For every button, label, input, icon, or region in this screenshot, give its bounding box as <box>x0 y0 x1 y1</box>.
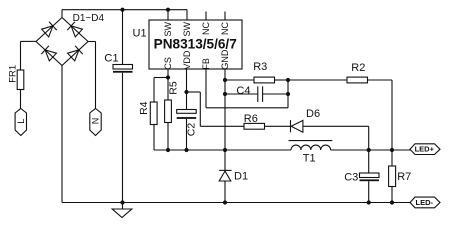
terminal N <box>90 109 101 136</box>
svg-text:SW: SW <box>163 21 173 36</box>
wire CS node to R4 <box>154 77 168 79</box>
junction GND / R3 <box>223 78 227 82</box>
resistor R7 <box>389 166 396 187</box>
wire C3 bottom <box>368 181 370 202</box>
svg-text:C4: C4 <box>236 85 250 97</box>
wire C4 left <box>225 93 258 95</box>
diode bridge D1~D4 diamond wires <box>36 18 88 66</box>
junction C3 top <box>367 148 371 152</box>
wire switch node to T1 <box>225 149 291 151</box>
svg-text:R2: R2 <box>351 62 365 74</box>
wire switch node to D1 <box>224 150 226 170</box>
wire R7 bottom <box>391 187 393 203</box>
svg-text:LED-: LED- <box>416 198 434 207</box>
fuse resistor FR1 <box>17 70 24 90</box>
wire CS node to R5 <box>167 78 169 101</box>
junction C4 / feedback node <box>286 92 290 96</box>
junction R7 top / R2 <box>390 148 394 152</box>
wire VDD node jog to R6 <box>187 91 201 93</box>
terminal L <box>15 109 26 136</box>
junction C2 / switch-node row <box>184 148 188 152</box>
svg-text:VDD: VDD <box>182 50 192 70</box>
junction R7 bottom <box>390 200 394 204</box>
junction bottom rail / C1 / ground <box>120 200 124 204</box>
junction GND / C4 <box>223 92 227 96</box>
wire C3 top <box>368 150 370 173</box>
wire R4 to switch-node row <box>153 125 155 151</box>
inductor T1 <box>289 140 333 142</box>
wire FB pin down <box>205 69 207 108</box>
wire top rail to C1 <box>122 10 124 65</box>
svg-text:FR1: FR1 <box>8 65 19 83</box>
svg-text:SW: SW <box>182 21 192 36</box>
wire bridge top vertex stub <box>61 10 63 18</box>
bridge diode top-right <box>71 26 82 37</box>
resistor R4 <box>150 102 157 125</box>
wire SW pin 2 stub <box>186 10 188 20</box>
capacitor C3 <box>360 173 380 178</box>
svg-text:NC: NC <box>201 22 211 35</box>
svg-text:D1: D1 <box>234 171 248 183</box>
wire bridge bottom vertex down <box>61 66 63 203</box>
wire R2 to output node <box>368 79 393 81</box>
junction feedback node / R2 row <box>286 78 290 82</box>
wire FB to feedback node <box>206 107 288 109</box>
svg-text:N: N <box>90 118 100 125</box>
svg-text:D6: D6 <box>306 108 320 120</box>
svg-text:R4: R4 <box>138 101 150 115</box>
wire switch-node row R4 to junction <box>154 149 225 151</box>
diode D6 <box>290 120 292 132</box>
junction VDD node <box>184 90 188 94</box>
wire R3 to feedback node <box>275 79 289 81</box>
wire N branch down <box>95 42 97 109</box>
bridge diode bottom-left <box>45 50 56 61</box>
junction R5 / switch-node row <box>166 148 170 152</box>
op-amp U1 PN8313 body <box>149 20 242 69</box>
capacitor C2 <box>177 110 197 114</box>
ground <box>122 203 124 210</box>
svg-text:PN8313/5/6/7: PN8313/5/6/7 <box>154 36 237 51</box>
wire bridge right vertex jog <box>88 41 96 43</box>
wire R3 row <box>225 79 254 81</box>
capacitor C4 <box>257 86 259 102</box>
wire SW pin 1 stub <box>167 10 169 20</box>
wire NC pin 4 stub <box>224 12 226 21</box>
wire L branch down to FR1 <box>20 41 22 70</box>
wire C2 to switch-node row <box>186 119 188 150</box>
svg-text:GND: GND <box>220 49 230 70</box>
svg-text:R6: R6 <box>244 113 258 125</box>
svg-text:T1: T1 <box>303 153 316 165</box>
svg-text:D1~D4: D1~D4 <box>73 13 105 24</box>
wire R7 top <box>391 150 393 166</box>
junction bottom rail / D1 <box>223 200 227 204</box>
wire FR1 to L terminal <box>20 90 22 109</box>
resistor R3 <box>254 77 275 83</box>
terminal LED- <box>410 197 440 208</box>
svg-text:R7: R7 <box>397 171 411 183</box>
terminal LED+ <box>410 144 440 155</box>
svg-text:C1: C1 <box>104 53 118 65</box>
svg-text:R5: R5 <box>168 81 180 95</box>
junction switch node <box>223 148 227 152</box>
svg-text:R3: R3 <box>253 61 267 73</box>
junction CS node <box>166 75 170 79</box>
wire T1 to LED+ terminal <box>331 149 411 151</box>
junction top rail / SW pin 1 <box>166 8 170 12</box>
wire feedback node to R2 <box>288 79 347 81</box>
resistor R2 <box>347 77 368 83</box>
wire bottom rail <box>62 202 411 204</box>
svg-text:C3: C3 <box>344 171 358 183</box>
wire VDD pin stub <box>186 69 188 92</box>
diode D1 <box>219 169 231 171</box>
junction top rail / C1 <box>120 8 124 12</box>
svg-text:FB: FB <box>201 58 211 70</box>
wire NC pin 3 stub <box>205 12 207 21</box>
wire CS pin stub <box>167 69 169 78</box>
resistor R6 <box>244 123 265 129</box>
wire C4 right <box>263 93 288 95</box>
wire bridge left vertex to L branch <box>21 40 37 42</box>
capacitor C1 <box>113 65 133 70</box>
wire R6 to D6 <box>265 125 291 127</box>
bridge diode top-left <box>42 26 53 37</box>
wire VDD node to C2 <box>186 92 188 110</box>
svg-text:CS: CS <box>163 57 173 70</box>
svg-text:NC: NC <box>220 22 230 35</box>
wire GND pin down <box>224 69 226 150</box>
junction C3 bottom <box>367 200 371 204</box>
svg-text:C2: C2 <box>186 123 198 137</box>
wire R5 to switch-node row <box>167 123 169 151</box>
wire D6 to C3 node <box>303 125 369 127</box>
wire C1 to bottom rail <box>122 73 124 203</box>
svg-text:LED+: LED+ <box>415 145 435 154</box>
resistor R5 <box>165 100 172 123</box>
wire top rail <box>62 9 187 11</box>
svg-text:L: L <box>16 119 26 124</box>
bridge diode bottom-right <box>68 50 79 61</box>
svg-text:U1: U1 <box>133 27 147 39</box>
